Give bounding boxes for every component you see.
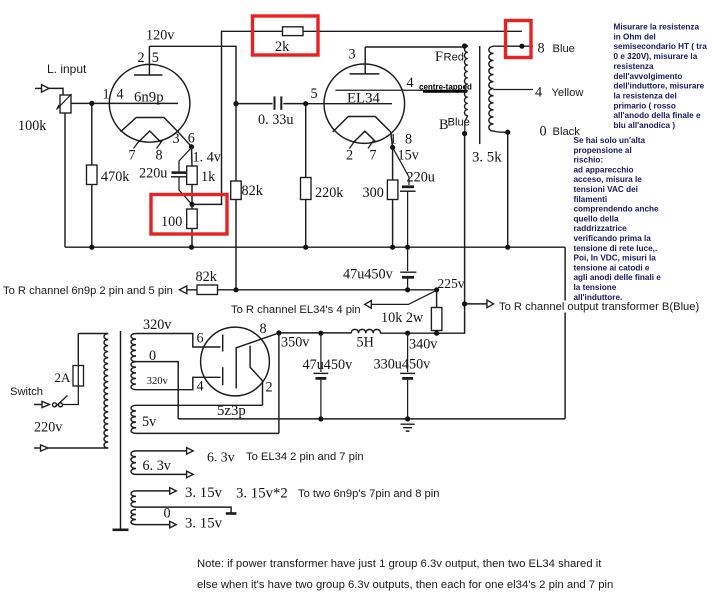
label To R channel EL34s 4 pin bbox=[231, 304, 361, 316]
svg-text:470k: 470k bbox=[101, 169, 130, 185]
wire secondary 0 tap bbox=[494, 131, 508, 132]
pin 2 U3 bbox=[266, 380, 273, 396]
svg-text:220v: 220v bbox=[34, 420, 63, 436]
svg-text:tensioni VAC dei: tensioni VAC dei bbox=[574, 185, 638, 194]
resistor 82k plate load bbox=[231, 104, 242, 291]
label 5v bbox=[142, 414, 157, 430]
node bus junctions right bbox=[390, 245, 410, 250]
svg-text:6. 3v: 6. 3v bbox=[207, 450, 235, 465]
red box around 2k bbox=[253, 16, 319, 55]
label 0 center tap bbox=[164, 506, 171, 522]
node 0 tap junction bbox=[505, 130, 510, 135]
svg-text:To EL34 2 pin and 7 pin: To EL34 2 pin and 7 pin bbox=[246, 451, 364, 463]
wire mains bottom lead bbox=[34, 445, 108, 451]
wire HT bottom lead bbox=[136, 377, 221, 389]
svg-text:tensione di rete luce,.: tensione di rete luce,. bbox=[574, 244, 658, 253]
svg-text:raddrizzatrice: raddrizzatrice bbox=[574, 224, 628, 233]
svg-text:330u450v: 330u450v bbox=[374, 357, 432, 373]
wire 6.3v top lead bbox=[136, 448, 193, 455]
label 4 Yellow bbox=[535, 85, 584, 101]
label 8 Blue bbox=[538, 41, 575, 57]
svg-text:in Ohm del: in Ohm del bbox=[614, 32, 656, 41]
label 2A bbox=[55, 370, 72, 385]
wire 6.3v bottom lead bbox=[136, 471, 193, 478]
svg-text:propensione al: propensione al bbox=[574, 146, 632, 155]
pin 7 U1 bbox=[129, 148, 136, 164]
svg-text:1: 1 bbox=[103, 87, 110, 103]
label 0 Black bbox=[540, 124, 581, 140]
svg-text:6. 3v: 6. 3v bbox=[143, 458, 172, 474]
wire psu ground line bbox=[178, 418, 565, 420]
svg-text:Blue: Blue bbox=[448, 117, 470, 129]
transformer T2 core bbox=[479, 46, 481, 144]
label 6n9p bbox=[134, 90, 164, 106]
svg-text:0 e 320V), misurare la: 0 e 320V), misurare la bbox=[614, 52, 698, 61]
label FRed bbox=[435, 49, 464, 65]
svg-text:6n9p: 6n9p bbox=[134, 90, 164, 106]
pin 2 U2 bbox=[346, 148, 353, 164]
switch contacts bbox=[53, 396, 68, 407]
svg-text:5: 5 bbox=[311, 86, 318, 102]
pin 5 U2 bbox=[311, 86, 318, 102]
transformer T2 output primary bbox=[465, 46, 468, 134]
svg-text:300: 300 bbox=[363, 185, 384, 201]
tube U2 cathode bbox=[333, 117, 391, 133]
pin 3 U2 bbox=[349, 47, 356, 63]
wire 120v plate to node bbox=[149, 46, 236, 103]
node junctions 225v rail bbox=[233, 287, 439, 292]
label 1.4v bbox=[193, 150, 222, 166]
pin 2 U2 lead bbox=[350, 141, 356, 149]
tube U2 plate bbox=[350, 47, 380, 74]
node junction pot-grid bbox=[89, 101, 94, 106]
svg-text:Switch: Switch bbox=[10, 386, 43, 398]
svg-text:8: 8 bbox=[260, 321, 267, 337]
svg-text:2: 2 bbox=[266, 380, 273, 396]
tube U1 cathode bbox=[121, 118, 178, 132]
label 120v bbox=[146, 28, 175, 44]
svg-text:3. 15v: 3. 15v bbox=[185, 516, 223, 532]
resistor 220k bbox=[301, 104, 312, 248]
svg-text:To R channel 6n9p 2 pin and 5: To R channel 6n9p 2 pin and 5 pin bbox=[3, 285, 173, 297]
svg-text:8: 8 bbox=[405, 132, 412, 148]
label italian block 1 bbox=[614, 23, 708, 131]
wire grid EL34 bbox=[306, 103, 392, 105]
label note line 1 bbox=[197, 558, 602, 570]
transformer T1 core bbox=[113, 331, 129, 530]
label 220v mains bbox=[34, 420, 63, 436]
transformer T1 HT winding top bbox=[131, 334, 136, 362]
svg-text:all'anodo della finale e: all'anodo della finale e bbox=[614, 111, 701, 120]
label To two 6n9p 7pin and 8pin bbox=[298, 488, 439, 500]
label To R channel 6n9p 2 pin and 5 pin bbox=[3, 285, 173, 297]
svg-text:5: 5 bbox=[152, 50, 159, 66]
svg-text:340v: 340v bbox=[409, 337, 438, 353]
svg-text:8: 8 bbox=[156, 148, 163, 164]
label To EL34 2 pin and 7 pin bbox=[246, 451, 364, 463]
svg-text:Blue: Blue bbox=[553, 43, 575, 55]
node grid junction EL34 bbox=[303, 101, 308, 106]
svg-text:4: 4 bbox=[197, 379, 204, 395]
svg-text:To R channel EL34's 4 pin: To R channel EL34's 4 pin bbox=[231, 304, 361, 316]
svg-text:la tensione: la tensione bbox=[574, 283, 617, 292]
svg-text:220u: 220u bbox=[139, 166, 167, 182]
node bus junctions left bbox=[89, 245, 194, 250]
transformer T1 HT winding bottom bbox=[131, 362, 136, 390]
inductor 5H bbox=[351, 329, 380, 333]
tube U2 EL34 envelope bbox=[324, 64, 405, 143]
svg-text:320v: 320v bbox=[143, 317, 172, 333]
capacitor 0.33u bbox=[236, 96, 306, 109]
transformer T2 secondary bbox=[489, 46, 494, 131]
label 6.3v big bbox=[207, 450, 235, 465]
wire 5v top lead bbox=[136, 404, 263, 406]
pin 5 U1 bbox=[152, 50, 159, 66]
label 220u bbox=[139, 166, 167, 182]
node FRed junction bbox=[462, 43, 467, 48]
node 8 tap junction bbox=[519, 44, 524, 49]
capacitor 47u450v middle bbox=[400, 247, 416, 290]
arrow to R channel 6n9p bbox=[179, 286, 187, 294]
svg-text:2A: 2A bbox=[55, 370, 72, 385]
tube U1 heater bbox=[138, 131, 161, 142]
wire to R channel output transformer bbox=[465, 300, 708, 312]
svg-text:To two 6n9p's 7pin and 8 pin: To two 6n9p's 7pin and 8 pin bbox=[298, 488, 439, 500]
svg-text:2k: 2k bbox=[275, 39, 290, 55]
tube U3 5z3p envelope bbox=[201, 327, 270, 396]
node B blue junction bbox=[462, 131, 467, 136]
node L input arrow bbox=[35, 85, 63, 95]
svg-text:0: 0 bbox=[164, 506, 171, 522]
label 300 bbox=[363, 185, 384, 201]
label 220k bbox=[315, 185, 344, 201]
label EL34 bbox=[347, 91, 380, 107]
label 82k feedback bbox=[196, 269, 218, 285]
transformer T1 6.3v winding bbox=[131, 451, 136, 475]
svg-text:5H: 5H bbox=[357, 335, 374, 351]
svg-text:47u450v: 47u450v bbox=[303, 357, 354, 373]
label 350v bbox=[281, 335, 310, 351]
capacitor 220u cathode U2 bbox=[393, 147, 416, 247]
label note line 2 bbox=[197, 579, 613, 591]
wire HT top lead bbox=[136, 334, 221, 348]
resistor 470k bbox=[87, 103, 98, 247]
label 320v bottom bbox=[147, 376, 169, 387]
tube U3 plate 6 bbox=[222, 335, 224, 352]
svg-text:7: 7 bbox=[370, 148, 377, 164]
svg-text:1k: 1k bbox=[201, 169, 216, 185]
svg-text:4: 4 bbox=[407, 75, 414, 91]
wire 3.15v top lead bbox=[136, 488, 176, 495]
wire ground bus bbox=[65, 246, 565, 248]
wire diagonal to EL34 4pin arrow bbox=[365, 290, 437, 308]
svg-text:comprendendo anche: comprendendo anche bbox=[574, 205, 660, 214]
label 2k bbox=[275, 39, 290, 55]
svg-text:100: 100 bbox=[161, 214, 182, 230]
svg-text:acceso, misura le: acceso, misura le bbox=[574, 175, 643, 184]
label 3.15v bottom bbox=[185, 516, 223, 532]
svg-text:Poi, In VDC, misuri la: Poi, In VDC, misuri la bbox=[574, 254, 657, 263]
wire B blue drop bbox=[437, 134, 465, 334]
fuse 2A bbox=[73, 361, 84, 390]
svg-text:resistenza: resistenza bbox=[614, 62, 654, 71]
wire 5v bottom lead bbox=[136, 432, 279, 434]
svg-text:3. 15v*2: 3. 15v*2 bbox=[236, 486, 288, 502]
pin 7 U1 lead bbox=[134, 141, 140, 149]
tube U2 heater bbox=[354, 131, 376, 142]
label 82k plate load bbox=[242, 183, 264, 199]
wire 3.15v bottom lead bbox=[136, 521, 176, 528]
ground symbol main bbox=[401, 424, 415, 431]
tube U3 filament bbox=[236, 346, 262, 406]
svg-text:ad apparecchio: ad apparecchio bbox=[574, 165, 634, 174]
pin 8 U1 bbox=[156, 148, 163, 164]
transformer T1 primary fuse wire bbox=[34, 334, 78, 408]
svg-text:3. 5k: 3. 5k bbox=[472, 150, 502, 166]
transformer T1 3.15v winding b bbox=[131, 510, 136, 525]
svg-text:To R channel output transforme: To R channel output transformer B(Blue) bbox=[499, 301, 700, 313]
label 1k bbox=[201, 169, 216, 185]
capacitor 47u450v psu bbox=[314, 333, 329, 419]
svg-text:Note: if power transformer hav: Note: if power transformer have just 1 g… bbox=[197, 558, 602, 570]
label 10k 2w bbox=[381, 310, 424, 326]
svg-text:320v: 320v bbox=[147, 376, 169, 387]
tube U1 6n9p envelope bbox=[109, 64, 190, 142]
svg-text:3: 3 bbox=[349, 47, 356, 63]
label 5z3p bbox=[217, 403, 246, 419]
svg-text:else when it's have two group: else when it's have two group 6.3v outpu… bbox=[197, 579, 613, 591]
svg-text:filamenti: filamenti bbox=[574, 195, 608, 204]
label 6.3v winding bbox=[143, 458, 172, 474]
wire secondary 8 tap bbox=[494, 45, 534, 47]
pin 7 U2 lead bbox=[368, 141, 374, 149]
pin 8 U3 bbox=[260, 321, 267, 337]
transformer T1 primary winding bbox=[78, 334, 108, 449]
label centre-tapped bbox=[419, 82, 472, 91]
svg-text:tensione ai catodi e: tensione ai catodi e bbox=[574, 263, 650, 272]
wire pot bottom to ground bus bbox=[64, 113, 66, 247]
wire 3.15v center tap bbox=[136, 507, 236, 513]
svg-text:120v: 120v bbox=[146, 28, 175, 44]
label 0.33u bbox=[258, 112, 293, 128]
svg-text:Misurare la resistenza: Misurare la resistenza bbox=[614, 23, 700, 32]
svg-text:F: F bbox=[435, 49, 443, 65]
svg-text:dell'induttore, misurare: dell'induttore, misurare bbox=[614, 82, 705, 91]
wire pin 8 diagonal bbox=[236, 333, 279, 348]
svg-text:0: 0 bbox=[540, 124, 547, 140]
pin 4 U2 bbox=[407, 75, 414, 91]
svg-text:350v: 350v bbox=[281, 335, 310, 351]
svg-text:100k: 100k bbox=[18, 118, 47, 134]
node bus junction 220k bbox=[303, 245, 308, 250]
pin 8 U1 lead bbox=[157, 141, 163, 149]
svg-text:1. 4v: 1. 4v bbox=[193, 150, 222, 166]
pin 1 U1 bbox=[103, 87, 110, 103]
resistor 300 bbox=[387, 147, 398, 247]
wire secondary 4 tap bbox=[494, 89, 534, 91]
svg-text:2: 2 bbox=[138, 50, 145, 66]
wire pin8 node down to 5v bbox=[278, 333, 280, 434]
resistor 1k bbox=[187, 147, 198, 205]
svg-text:semisecondario HT ( tra: semisecondario HT ( tra bbox=[614, 42, 708, 51]
wire HT 0 tap to psu ground bbox=[136, 362, 178, 419]
pin 2 U1 bbox=[138, 50, 145, 66]
node B branch junction bbox=[462, 301, 467, 306]
label 330u450v bbox=[374, 357, 432, 373]
label 100k bbox=[18, 118, 47, 134]
svg-text:verificando prima la: verificando prima la bbox=[574, 234, 652, 243]
label 340v bbox=[409, 337, 438, 353]
svg-text:220u: 220u bbox=[407, 170, 435, 186]
label To R channel output transformer B Blue bbox=[499, 301, 700, 313]
svg-text:dell'avvolgimento: dell'avvolgimento bbox=[614, 72, 683, 81]
svg-text:Se hai solo un'alta: Se hai solo un'alta bbox=[574, 136, 646, 145]
label 470k bbox=[101, 169, 130, 185]
svg-text:6: 6 bbox=[197, 331, 204, 347]
svg-text:220k: 220k bbox=[315, 185, 344, 201]
resistor 2k bbox=[283, 27, 304, 36]
label Switch bbox=[10, 386, 43, 398]
wire NFB jog to 2k bbox=[192, 31, 522, 204]
svg-text:L. input: L. input bbox=[47, 62, 87, 76]
svg-text:la resistenza del: la resistenza del bbox=[614, 92, 677, 101]
svg-text:Red: Red bbox=[444, 52, 465, 64]
pin 1 U2 bbox=[390, 132, 397, 148]
svg-text:0. 33u: 0. 33u bbox=[258, 112, 293, 128]
svg-text:10k 2w: 10k 2w bbox=[381, 310, 424, 326]
node cathode network junction bbox=[189, 202, 194, 207]
label 47u450v middle bbox=[343, 267, 394, 283]
svg-text:5v: 5v bbox=[142, 414, 157, 430]
pin 7 U2 bbox=[370, 148, 377, 164]
label 3.5k bbox=[472, 150, 502, 166]
tube U1 plate bbox=[134, 46, 163, 75]
label 47u450v psu bbox=[303, 357, 354, 373]
wire grid 6n9p bbox=[71, 102, 178, 104]
pin 6 U3 bbox=[197, 331, 204, 347]
svg-text:82k: 82k bbox=[242, 183, 264, 199]
wire 350v rail bbox=[279, 332, 437, 334]
pin 8 U2 bbox=[405, 132, 412, 148]
node psu ground junctions bbox=[318, 416, 410, 421]
pin 4 U1 bbox=[117, 87, 124, 103]
label italian block 2 bbox=[574, 136, 662, 302]
tube U3 plate 4 bbox=[222, 367, 224, 385]
resistor 100 bbox=[187, 204, 198, 247]
wire 0 tap down to bus bbox=[505, 132, 510, 250]
svg-text:47u450v: 47u450v bbox=[343, 267, 394, 283]
potentiometer 100k bbox=[56, 94, 72, 113]
transformer T1 5v winding bbox=[131, 405, 136, 433]
svg-text:primario ( rosso: primario ( rosso bbox=[614, 101, 676, 110]
svg-text:Yellow: Yellow bbox=[552, 87, 585, 99]
capacitor 330u450v bbox=[400, 333, 415, 419]
svg-text:4: 4 bbox=[535, 85, 542, 101]
resistor 82k feedback horizontal bbox=[197, 285, 218, 295]
label L. input bbox=[47, 62, 87, 76]
pin 3 U1 bbox=[173, 131, 180, 147]
red box around 100 bbox=[151, 195, 227, 235]
svg-text:3. 15v: 3. 15v bbox=[185, 485, 223, 501]
transformer T1 3.15v winding a bbox=[131, 491, 136, 507]
svg-text:blu all'anodica ): blu all'anodica ) bbox=[614, 121, 676, 130]
pin 4 U3 bbox=[197, 379, 204, 395]
wire EL34 plate to FRed bbox=[365, 46, 464, 48]
svg-text:EL34: EL34 bbox=[347, 91, 380, 107]
svg-text:all'induttore.: all'induttore. bbox=[574, 293, 623, 302]
label 320v top bbox=[143, 317, 172, 333]
wire U2 cathode lead bbox=[390, 132, 395, 150]
label 220u EL34 bbox=[407, 170, 435, 186]
label B Blue bbox=[439, 117, 470, 134]
node junctions 350v rail bbox=[276, 330, 439, 336]
svg-text:7: 7 bbox=[129, 148, 136, 164]
svg-text:agli anodi delle finali e: agli anodi delle finali e bbox=[574, 273, 662, 282]
wire 225v rail bbox=[187, 289, 439, 291]
svg-text:quello della: quello della bbox=[574, 214, 619, 223]
label 3.15v top bbox=[185, 485, 223, 501]
label 5H bbox=[357, 335, 374, 351]
label 100 bbox=[161, 214, 182, 230]
svg-text:rischio:: rischio: bbox=[574, 156, 604, 165]
resistor 10k 2w bbox=[431, 290, 442, 333]
svg-text:4: 4 bbox=[117, 87, 124, 103]
label 3.15v x2 bbox=[236, 486, 288, 502]
svg-text:82k: 82k bbox=[196, 269, 218, 285]
label 15v bbox=[398, 148, 420, 164]
label 0 HT tap bbox=[149, 348, 156, 364]
svg-text:225v: 225v bbox=[438, 276, 465, 291]
node plate junction U1 bbox=[233, 101, 238, 106]
svg-text:8: 8 bbox=[538, 41, 545, 57]
capacitor 220u cathode U1 bbox=[171, 148, 192, 205]
svg-text:2: 2 bbox=[346, 148, 353, 164]
tube U2 screen grid bbox=[335, 90, 467, 91]
wire right ground return bbox=[564, 247, 566, 419]
wire U1 cathode lead bbox=[178, 132, 194, 150]
label 225v bbox=[438, 276, 465, 291]
pin 6 U1 bbox=[188, 131, 195, 147]
red box around 8 tap bbox=[506, 21, 532, 58]
